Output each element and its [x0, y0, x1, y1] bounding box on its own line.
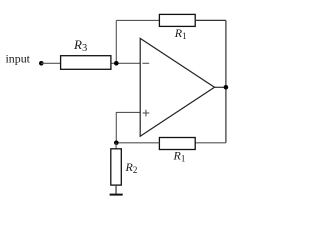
- wire junction to plus input: [116, 112, 140, 142]
- wire feedback top right segment: [195, 19, 226, 21]
- wire R2 to ground: [115, 185, 117, 194]
- resistor R3: [61, 56, 111, 70]
- wire op-amp output to node: [215, 86, 226, 88]
- wire R3 to op-amp inverting input: [111, 62, 140, 64]
- wire junction up to feedback: [115, 20, 117, 63]
- wire bottom left segment: [116, 142, 159, 144]
- wire bottom right segment: [195, 142, 226, 144]
- wire junction to R2: [115, 143, 117, 149]
- node A inverting-input junction: [114, 61, 119, 66]
- node B non-inverting junction: [114, 141, 119, 146]
- resistor R1 feedback: [159, 14, 195, 26]
- wire feedback top left segment: [116, 19, 159, 21]
- svg-text:input: input: [6, 52, 31, 66]
- node output: [224, 85, 229, 90]
- pin label plus: [143, 110, 150, 117]
- op-amp U1: [140, 38, 214, 136]
- ground: [110, 194, 123, 196]
- node input terminal: [39, 61, 44, 66]
- wire input to R3: [41, 62, 60, 64]
- wire output right vertical: [225, 20, 227, 142]
- resistor R1 bottom: [159, 138, 195, 150]
- resistor R2: [111, 149, 122, 185]
- pin label minus: [142, 62, 149, 64]
